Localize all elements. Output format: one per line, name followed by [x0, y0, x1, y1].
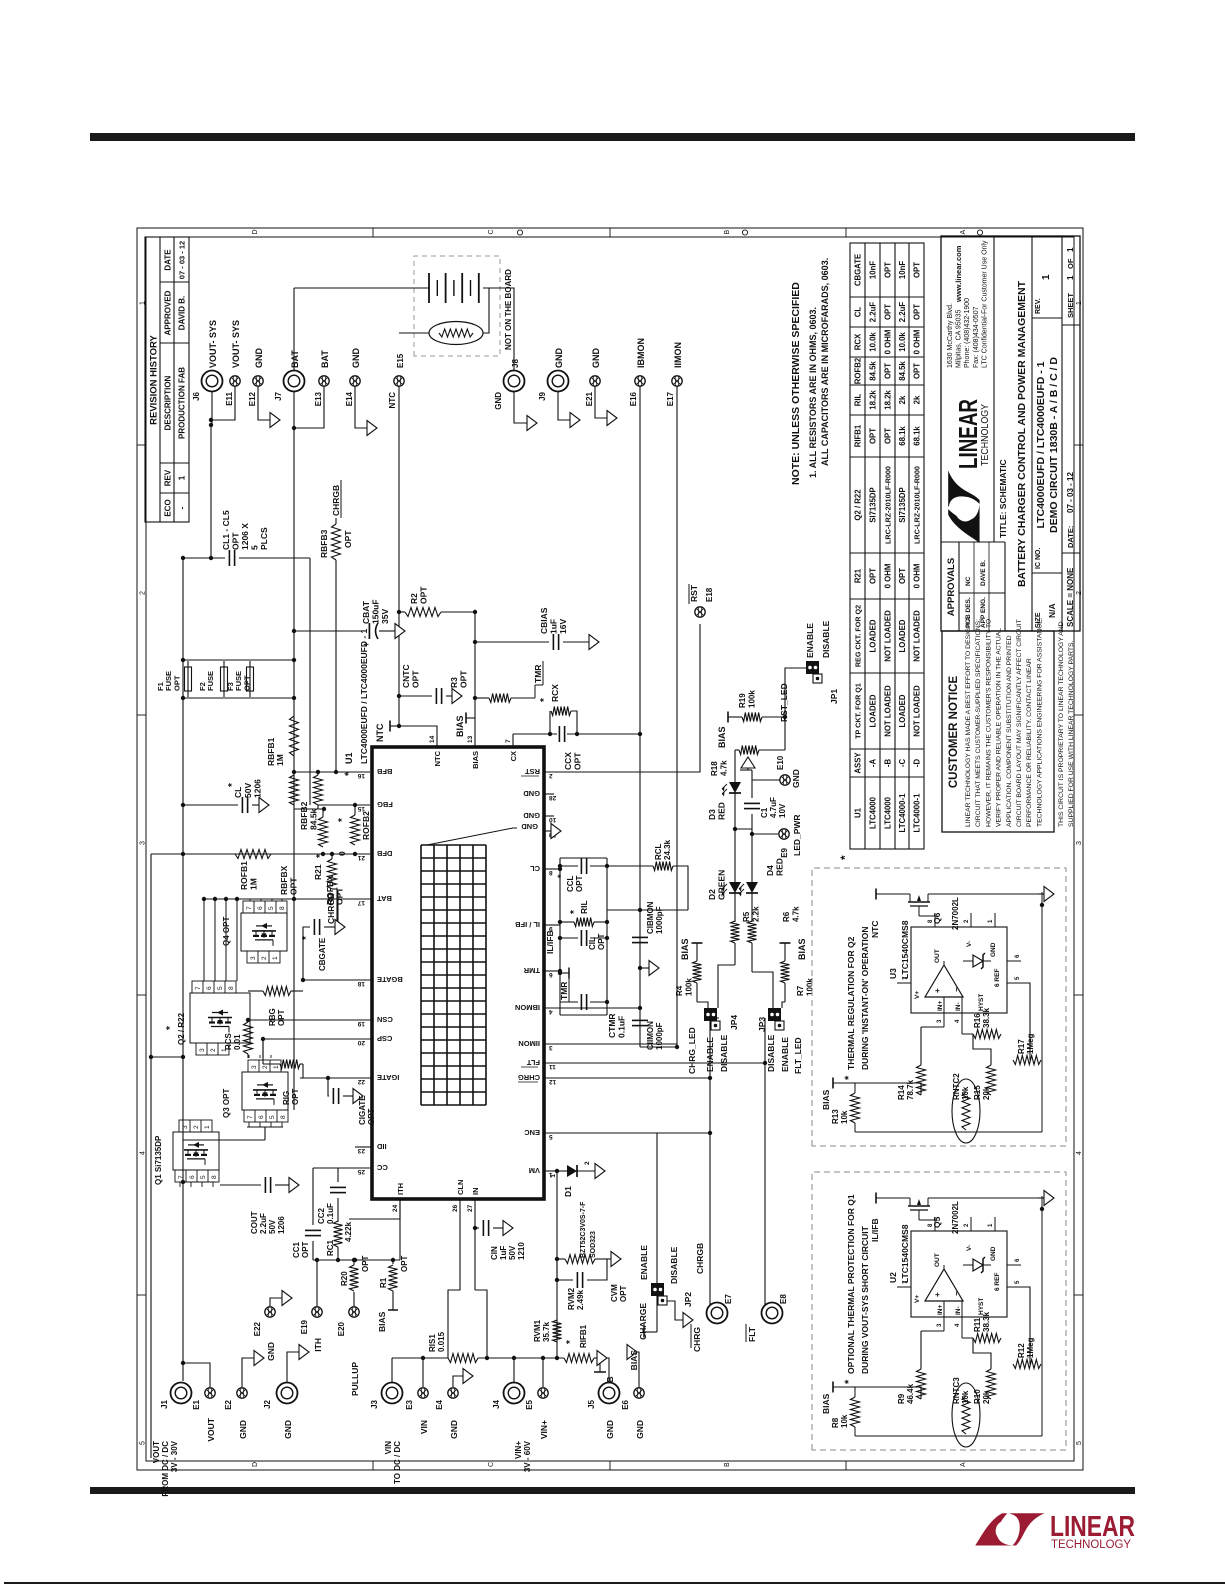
svg-text:2: 2 [193, 1125, 200, 1129]
svg-text:R17: R17 [1017, 1039, 1026, 1054]
svg-text:-B: -B [884, 759, 893, 768]
svg-text:R21: R21 [854, 568, 863, 583]
ground [289, 1178, 299, 1193]
fuse F1 [183, 697, 294, 699]
svg-text:NOT LOADED: NOT LOADED [913, 685, 922, 737]
svg-text:2: 2 [140, 591, 147, 595]
svg-text:ENABLE: ENABLE [805, 623, 815, 658]
svg-text:D4: D4 [765, 865, 775, 876]
svg-text:CHARGE: CHARGE [638, 1303, 648, 1340]
svg-text:15: 15 [357, 805, 365, 812]
svg-text:4: 4 [549, 1008, 553, 1015]
svg-text:NTC: NTC [870, 921, 880, 938]
svg-text:2: 2 [584, 1161, 591, 1165]
svg-text:N/A: N/A [1047, 603, 1057, 618]
turret E19 ITH [312, 1307, 322, 1317]
ground [627, 1345, 637, 1360]
svg-text:3: 3 [140, 841, 147, 845]
resistor RBFB2 [314, 775, 323, 805]
svg-text:100k: 100k [748, 690, 757, 708]
svg-text:OPT: OPT [277, 1009, 286, 1026]
svg-text:2N7002L: 2N7002L [951, 1201, 960, 1234]
svg-text:LTC1540CMS8: LTC1540CMS8 [900, 1224, 910, 1283]
gnd U3 [1038, 893, 1044, 895]
U1 GND pin stubs [544, 793, 554, 795]
svg-text:7: 7 [178, 1175, 185, 1179]
U1 IID stub [355, 1146, 371, 1148]
svg-text:10nF: 10nF [869, 261, 878, 279]
svg-text:R10: R10 [973, 1389, 982, 1404]
svg-text:BIAS: BIAS [717, 726, 727, 748]
svg-text:ROFB1: ROFB1 [239, 861, 249, 890]
net RST wire [544, 624, 700, 772]
svg-text:APPROVED: APPROVED [164, 290, 173, 335]
svg-text:4.7k: 4.7k [792, 906, 801, 922]
ground [254, 1351, 264, 1366]
turret E16 IBMON [635, 376, 645, 386]
svg-text:BIAS: BIAS [455, 715, 465, 737]
svg-text:BGATE: BGATE [377, 975, 403, 984]
turret E1 VOUT [183, 1363, 210, 1393]
capacitor CBGATE [313, 919, 315, 935]
svg-text:LTC1540CMS8: LTC1540CMS8 [900, 920, 910, 979]
ground [463, 1369, 473, 1384]
svg-text:DEMO CIRCUIT 1830B - A / B / C: DEMO CIRCUIT 1830B - A / B / C / D [1048, 357, 1060, 533]
ground [597, 1351, 607, 1366]
ground [570, 413, 580, 428]
svg-text:−: − [952, 987, 961, 992]
svg-text:CHRG: CHRG [692, 1327, 702, 1352]
svg-text:CX: CX [509, 751, 518, 761]
turret E21 gnd [595, 381, 607, 418]
tap TMR [544, 970, 560, 972]
svg-text:CCX: CCX [563, 752, 573, 770]
svg-text:2: 2 [964, 1223, 970, 1227]
resistor R19 [742, 713, 762, 722]
svg-text:150uF: 150uF [371, 599, 381, 624]
connector J6 [211, 381, 223, 425]
resistor RIL [560, 921, 574, 923]
svg-text:RVM2: RVM2 [567, 1287, 576, 1310]
svg-text:FBG: FBG [377, 800, 393, 809]
led D3 RED chain [735, 749, 739, 751]
ground [335, 920, 345, 935]
svg-text:38.3k: 38.3k [982, 1311, 991, 1332]
svg-text:2.49k: 2.49k [576, 1289, 585, 1310]
wire R5 to JP4 [718, 965, 735, 1008]
capacitor CIIMON [632, 1025, 648, 1027]
jumper JP2 CHARGE [656, 1133, 658, 1284]
dashed box U3 [812, 868, 1066, 1146]
svg-text:NTC: NTC [433, 750, 442, 766]
svg-text:6: 6 [206, 986, 213, 990]
resistor R16 [973, 1030, 1001, 1039]
svg-text:+: + [933, 988, 942, 993]
net line y423 [559, 858, 561, 1015]
svg-text:E5: E5 [525, 1399, 534, 1409]
tap IL/IFB [876, 1197, 902, 1199]
svg-text:OPT: OPT [619, 1285, 628, 1302]
svg-text:20k: 20k [982, 1086, 991, 1100]
svg-text:R2: R2 [409, 593, 419, 604]
resistor R1 [392, 1260, 394, 1264]
net ENC riser [544, 1132, 710, 1134]
jumper JP4 CHRG_LED [704, 1008, 717, 1021]
svg-text:CC: CC [376, 1163, 387, 1172]
transistor Q2 R22 [190, 993, 250, 1043]
svg-text:VIN+: VIN+ [539, 1420, 549, 1439]
svg-text:07 - 03 - 12: 07 - 03 - 12 [178, 241, 187, 279]
svg-text:OPT: OPT [575, 875, 584, 892]
svg-text:E3: E3 [405, 1399, 414, 1409]
svg-text:2: 2 [262, 1065, 269, 1069]
svg-text:IBMON: IBMON [515, 1003, 540, 1012]
svg-text:GND: GND [283, 1420, 293, 1439]
LT logo title block [948, 471, 979, 543]
svg-text:RIL: RIL [579, 900, 589, 914]
svg-text:0.015: 0.015 [437, 1331, 446, 1352]
svg-text:7: 7 [247, 1115, 254, 1119]
svg-text:OPT: OPT [367, 1108, 376, 1125]
svg-text:-C: -C [898, 759, 907, 768]
jumper JP1 [806, 661, 819, 674]
svg-text:J3: J3 [370, 1399, 379, 1408]
svg-text:22: 22 [357, 1078, 365, 1085]
svg-text:CIGATE: CIGATE [358, 1095, 367, 1125]
ground [367, 421, 377, 436]
svg-text:OPT: OPT [361, 1255, 370, 1272]
svg-text:ROFB2: ROFB2 [854, 357, 863, 384]
resistor R21 [328, 859, 337, 889]
svg-text:R3: R3 [449, 677, 459, 688]
comparator U3 LTC1540CMS8 [911, 927, 1007, 1013]
svg-text:1: 1 [988, 1223, 994, 1227]
top black bar [90, 133, 1135, 141]
svg-text:CLN: CLN [456, 1180, 465, 1195]
svg-text:GND: GND [266, 1342, 276, 1361]
svg-text:E14: E14 [345, 391, 354, 406]
svg-text:2.2uF: 2.2uF [869, 302, 878, 323]
svg-text:J1: J1 [160, 1399, 169, 1408]
svg-text:CSP: CSP [377, 1034, 392, 1043]
resistor RCS [244, 1022, 253, 1054]
svg-text:IN-: IN- [955, 1306, 962, 1315]
title block grid [941, 541, 1005, 543]
svg-text:V-: V- [966, 941, 973, 947]
resistor R6 [748, 921, 757, 943]
ground [503, 1221, 513, 1236]
svg-text:4: 4 [955, 1323, 961, 1327]
capacitor CBIAS [475, 641, 549, 643]
svg-text:CHRGB: CHRGB [331, 485, 341, 516]
svg-text:SI7135DP: SI7135DP [869, 487, 878, 523]
svg-text:PLCS: PLCS [259, 527, 269, 550]
turret E3 VIN [422, 1358, 424, 1387]
svg-text:CHRG: CHRG [518, 1073, 540, 1082]
wire BFB riser [294, 771, 370, 773]
svg-text:C: C [488, 229, 495, 234]
net VOUT-SYS upper segment [210, 425, 212, 558]
svg-text:D1: D1 [563, 1186, 573, 1197]
svg-text:CBGATE: CBGATE [854, 254, 863, 286]
assembly option table [850, 243, 924, 849]
comparator U2 LTC1540CMS8 [911, 1231, 1007, 1317]
svg-text:1uF: 1uF [499, 1246, 508, 1260]
svg-text:V+: V+ [914, 1295, 921, 1303]
wire cluster to monitor line [607, 909, 640, 911]
svg-text:14: 14 [429, 735, 436, 743]
grid to GND lead [427, 828, 517, 845]
svg-text:*: * [843, 1379, 855, 1384]
op-amp U1 LTC4000EUFD body [372, 747, 544, 1199]
battery dashed box [414, 256, 500, 356]
svg-text:VERIFY PROPER AND RELIABLE OPE: VERIFY PROPER AND RELIABLE OPERATION IN … [996, 628, 1003, 827]
svg-text:1000pF: 1000pF [655, 1022, 664, 1050]
svg-text:FLT_LED: FLT_LED [793, 1037, 803, 1074]
resistor ROFB1 in DFB line [235, 850, 271, 859]
svg-text:DISABLE: DISABLE [669, 1246, 679, 1284]
svg-text:GND: GND [554, 348, 564, 369]
svg-text:R12: R12 [1017, 1343, 1026, 1358]
svg-text:10k: 10k [961, 1086, 970, 1100]
svg-text:NOTE: UNLESS OTHERWISE SPECIFI: NOTE: UNLESS OTHERWISE SPECIFIED [790, 282, 802, 485]
svg-text:4.7uF: 4.7uF [769, 797, 778, 818]
svg-text:R11: R11 [973, 1317, 982, 1332]
svg-text:2.2uF: 2.2uF [259, 1213, 268, 1234]
turret E9 LED_PWR [750, 832, 754, 836]
turret E12 gnd [258, 381, 270, 420]
svg-text:3: 3 [937, 1323, 943, 1327]
svg-text:TECHNOLOGY: TECHNOLOGY [980, 404, 991, 466]
svg-text:R20: R20 [340, 1271, 349, 1286]
resistor RVM1 [553, 1320, 562, 1342]
resistor R8 [833, 1386, 855, 1388]
svg-text:DESCRIPTION: DESCRIPTION [164, 375, 173, 430]
svg-text:5: 5 [268, 906, 275, 910]
svg-text:E8: E8 [779, 1294, 788, 1304]
svg-text:CIN: CIN [490, 1246, 499, 1260]
svg-text:24: 24 [392, 1204, 399, 1212]
svg-text:3: 3 [182, 1125, 189, 1129]
svg-text:ROFB2: ROFB2 [361, 811, 371, 840]
svg-text:7: 7 [246, 906, 253, 910]
svg-text:LTC4000-1: LTC4000-1 [913, 793, 922, 833]
svg-text:CL: CL [233, 787, 243, 798]
svg-text:IGATE: IGATE [377, 1073, 399, 1082]
svg-text:1210: 1210 [517, 1242, 526, 1260]
svg-text:19: 19 [357, 1020, 365, 1027]
svg-text:OPT: OPT [459, 670, 469, 688]
svg-text:CIRCUIT BOARD LAYOUT MAY SIGNI: CIRCUIT BOARD LAYOUT MAY SIGNIFICANTLY A… [1016, 619, 1023, 827]
svg-text:JP1: JP1 [829, 689, 839, 704]
svg-text:CIRCUIT THAT MEETS CUSTOMER-SU: CIRCUIT THAT MEETS CUSTOMER-SUPPLIED SPE… [975, 619, 982, 827]
svg-text:*: * [556, 874, 566, 878]
svg-text:IN+: IN+ [937, 1305, 944, 1316]
net BAT rail [293, 288, 295, 1110]
net IL/IFB tap bottom [599, 1358, 601, 1372]
svg-text:OPT: OPT [884, 262, 893, 278]
svg-text:BIAS: BIAS [377, 1311, 387, 1332]
svg-text:COUT: COUT [250, 1211, 259, 1234]
wire R6 to JP3 [752, 972, 773, 1008]
turret E4 gnd [453, 1376, 463, 1387]
thermistor RNTC3 [952, 1383, 980, 1447]
svg-text:1: 1 [1041, 274, 1052, 280]
svg-text:RIL: RIL [854, 393, 863, 406]
svg-text:BIAS: BIAS [471, 751, 480, 769]
svg-text:VOUT: VOUT [152, 1441, 161, 1463]
svg-text:1. ALL RESISTORS ARE IN OHMS,: 1. ALL RESISTORS ARE IN OHMS, 0603. [808, 307, 818, 478]
svg-text:IIMON: IIMON [673, 342, 683, 368]
svg-text:4: 4 [1076, 1151, 1083, 1155]
svg-text:PRODUCTION FAB: PRODUCTION FAB [178, 367, 187, 439]
svg-text:1: 1 [1066, 247, 1075, 252]
svg-text:RST: RST [525, 767, 540, 776]
resistor R18 [739, 746, 759, 755]
capacitor CTMR [560, 1001, 578, 1003]
svg-text:1630 McCarthy Blvd.: 1630 McCarthy Blvd. [947, 303, 954, 368]
svg-text:11: 11 [549, 1063, 556, 1070]
svg-text:J6: J6 [192, 391, 201, 400]
ground [1044, 887, 1054, 902]
revision history table [145, 237, 189, 522]
net FLT wire to E8 [544, 1063, 765, 1313]
svg-text:1: 1 [1066, 275, 1075, 280]
svg-text:Phone: (408)432-1900: Phone: (408)432-1900 [964, 298, 971, 368]
svg-text:10: 10 [549, 816, 557, 823]
svg-text:Q5: Q5 [932, 1216, 942, 1228]
svg-text:1: 1 [550, 1174, 557, 1178]
tap BIAS R4 [696, 943, 698, 950]
svg-text:38.3k: 38.3k [982, 1007, 991, 1028]
svg-text:DAVID B.: DAVID B. [178, 296, 187, 331]
svg-text:Milpitas, CA 95035: Milpitas, CA 95035 [956, 310, 963, 368]
svg-text:J4: J4 [492, 1399, 501, 1408]
svg-text:OUT: OUT [934, 949, 941, 963]
svg-text:2k: 2k [913, 395, 922, 404]
svg-text:RST_LED: RST_LED [779, 683, 789, 722]
svg-text:D: D [252, 1462, 259, 1467]
svg-text:TITLE: SCHEMATIC: TITLE: SCHEMATIC [998, 459, 1008, 538]
svg-text:3: 3 [1076, 841, 1083, 845]
sheet frame inner [146, 237, 1074, 1461]
svg-text:+: + [933, 1292, 942, 1297]
transistor Q4 [241, 913, 287, 951]
svg-text:E15: E15 [396, 353, 405, 368]
svg-text:R6: R6 [782, 911, 791, 922]
transistor Q1 Si7135DP [173, 1132, 219, 1170]
svg-text:BAT: BAT [320, 350, 330, 368]
svg-text:FUSE: FUSE [206, 671, 215, 691]
resistor R11 [973, 1334, 1001, 1343]
svg-text:IN: IN [471, 1188, 480, 1196]
svg-text:IN-: IN- [955, 1002, 962, 1011]
resistor RIS1 [392, 1357, 448, 1359]
wire monitor riser [640, 1046, 677, 1048]
svg-text:RIFB1: RIFB1 [579, 1324, 588, 1348]
svg-text:LTC4000: LTC4000 [884, 796, 893, 829]
svg-text:28: 28 [549, 794, 557, 801]
svg-text:8: 8 [279, 906, 286, 910]
svg-text:R9: R9 [897, 1393, 906, 1404]
svg-text:17: 17 [357, 899, 365, 906]
svg-text:OPT: OPT [884, 428, 893, 444]
jumper JP3 FLT_LED [768, 1008, 781, 1021]
connector J8 gnd [489, 288, 514, 370]
svg-text:E12: E12 [248, 391, 257, 406]
svg-text:E22: E22 [253, 1321, 262, 1336]
svg-text:J2: J2 [263, 1399, 272, 1408]
svg-text:OPT: OPT [301, 1241, 310, 1258]
net NTC rail [398, 381, 400, 726]
svg-text:6: 6 [189, 1175, 196, 1179]
fuse F2 [221, 667, 228, 691]
dashed box U2 [812, 1172, 1066, 1450]
jack E7 CHRG [707, 1303, 728, 1324]
svg-text:10nF: 10nF [898, 261, 907, 279]
svg-text:6: 6 [1015, 1258, 1021, 1262]
svg-text:RCX: RCX [854, 333, 863, 350]
svg-text:BIAS: BIAS [797, 938, 807, 960]
ground [395, 624, 405, 639]
svg-text:2: 2 [261, 956, 268, 960]
svg-text:100k: 100k [685, 978, 694, 996]
svg-text:NOT ON THE BOARD: NOT ON THE BOARD [504, 269, 513, 350]
svg-text:4: 4 [955, 1019, 961, 1023]
resistor RBFB3 [335, 560, 337, 772]
svg-text:5: 5 [140, 1441, 147, 1445]
svg-text:OPT: OPT [913, 363, 922, 379]
wires U2 [919, 1217, 935, 1220]
customer notice box [942, 631, 1054, 832]
svg-text:REV.: REV. [1035, 298, 1042, 314]
svg-text:APPLICATION. COMPONENT SUBSTI: APPLICATION. COMPONENT SUBSTITUTION AND … [1006, 635, 1013, 827]
svg-text:TP CKT. FOR Q1: TP CKT. FOR Q1 [854, 683, 863, 739]
resistor R20 [350, 1265, 359, 1291]
battery thermistor [429, 322, 483, 345]
svg-text:8: 8 [211, 1175, 218, 1179]
svg-text:GND: GND [494, 392, 503, 410]
svg-text:RIFB1: RIFB1 [854, 424, 863, 447]
fuse F3 [247, 667, 254, 691]
svg-text:OPT: OPT [343, 530, 353, 548]
svg-text:VM: VM [529, 1166, 540, 1175]
svg-text:84.5k: 84.5k [869, 361, 878, 381]
svg-text:LINEAR: LINEAR [953, 399, 983, 469]
svg-text:6 REF: 6 REF [994, 1273, 1001, 1291]
svg-text:R16: R16 [973, 1013, 982, 1028]
capacitor CL1-CL5 [183, 557, 225, 559]
svg-text:LOADED: LOADED [869, 619, 878, 652]
svg-text:OPT: OPT [289, 877, 299, 895]
svg-text:2: 2 [964, 919, 970, 923]
resistor RC1 [334, 1221, 343, 1247]
svg-text:CBIAS: CBIAS [539, 607, 549, 634]
turret E11 [211, 381, 235, 420]
svg-text:GREEN: GREEN [717, 870, 727, 900]
svg-text:RBFBX: RBFBX [279, 865, 289, 895]
svg-text:LOADED: LOADED [869, 694, 878, 727]
svg-text:CVM: CVM [610, 1284, 619, 1302]
svg-text:CNTC: CNTC [401, 664, 411, 688]
svg-text:RNTC2: RNTC2 [952, 1073, 961, 1100]
svg-text:10.0k: 10.0k [869, 332, 878, 352]
svg-text:HOWEVER, IT REMAINS THE CUSTOM: HOWEVER, IT REMAINS THE CUSTOMER'S RESPO… [985, 619, 992, 827]
svg-text:RC1: RC1 [326, 1239, 335, 1256]
svg-text:V-: V- [966, 1245, 973, 1251]
svg-text:1: 1 [273, 1065, 280, 1069]
svg-text:RIS1: RIS1 [428, 1334, 437, 1352]
